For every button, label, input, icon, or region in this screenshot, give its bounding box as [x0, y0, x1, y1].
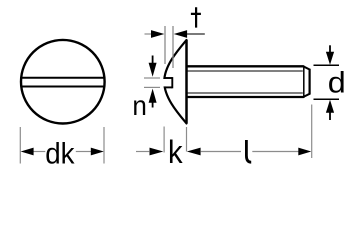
shaft end face: [309, 69, 311, 95]
k dim tail left: [136, 151, 149, 153]
chamfer edge vertical: [303, 66, 305, 98]
slot bottom line (side view): [164, 86, 172, 88]
thread root top line: [187, 70, 302, 72]
chamfer diagonal bottom: [303, 94, 309, 97]
t extension line left: [164, 26, 166, 64]
n extension stub bottom: [144, 86, 160, 88]
k arrow left: [150, 148, 164, 156]
label t: [191, 7, 201, 27]
svg-text:dk: dk: [45, 137, 75, 170]
k/l shared arrow pointing left at head face: [187, 148, 201, 156]
t dim tail left: [145, 33, 152, 35]
k extension line right: [186, 127, 188, 152]
chamfer diagonal top: [303, 66, 309, 69]
l extension line right: [311, 105, 313, 159]
dk arrow left: [21, 148, 34, 156]
dk arrow right: [91, 148, 104, 156]
slot top line (side view): [164, 77, 172, 79]
l dimension line right segment: [252, 151, 298, 153]
side view: head dome curve: [164, 40, 186, 123]
thread root bottom line: [187, 92, 302, 94]
dk extension line left: [19, 127, 21, 164]
slot line top (top view): [21, 77, 104, 79]
svg-text:k: k: [168, 134, 184, 170]
t dim tail right: [187, 33, 205, 35]
t arrow right: [174, 30, 187, 38]
t extension line right: [172, 26, 174, 68]
n extension stub top: [144, 77, 160, 79]
l dimension line left segment: [200, 151, 241, 153]
slot floor line (side view): [171, 77, 173, 88]
t arrow left: [151, 30, 164, 38]
d arrow top: [329, 45, 331, 53]
dk extension line right: [103, 127, 105, 164]
svg-text:n: n: [132, 90, 147, 121]
label l: [246, 140, 251, 162]
white cut for slot notch: [158, 79, 172, 87]
svg-text:d: d: [328, 67, 346, 100]
d arrow bottom: [326, 100, 334, 113]
slot line bottom (top view): [21, 86, 104, 88]
side view: head face line: [185, 40, 188, 123]
d extension line top: [314, 64, 340, 66]
screw head top view: outer circle: [21, 40, 105, 124]
l arrow right: [298, 148, 311, 156]
dk dimension line segments: [33, 151, 45, 153]
n arrow bottom: [149, 89, 157, 103]
shaft outer top line: [187, 65, 303, 67]
d extension line bottom: [314, 98, 340, 100]
k extension line left: [163, 127, 165, 153]
shaft outer bottom line: [187, 96, 303, 98]
n arrow top: [152, 56, 154, 64]
